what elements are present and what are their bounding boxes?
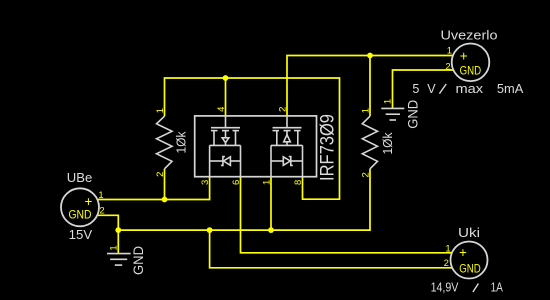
svg-text:+: + [460,48,468,63]
wire net E stub to R2 pin1 [369,56,371,117]
wire net C: IC pin6 to Uki pin1 [241,177,453,253]
junction node B2 [207,227,213,233]
svg-text:1A: 1A [491,281,504,295]
svg-text:1: 1 [98,190,103,201]
wire net E: IC pin2 to Uvezerlo pin1 [287,56,453,116]
junction node D [223,75,229,81]
svg-text:15V: 15V [69,228,93,242]
svg-text:1Øk: 1Øk [174,131,189,153]
svg-text:4: 4 [216,107,227,112]
wire net B stub down to GND1 [117,230,119,253]
wire net B branch to Uki pin2 [210,230,452,268]
value label 5V / max 5mA [412,82,524,96]
transistor Q1: left N-channel MOSFET of U1 [210,116,241,177]
svg-text:Uki: Uki [458,226,480,240]
svg-text:3: 3 [200,180,211,185]
svg-text:max: max [456,82,484,96]
svg-text:GND: GND [406,100,421,129]
svg-text:V: V [427,82,436,96]
wire net B branch to IC pin1 [270,177,272,230]
svg-text:14,9V: 14,9V [431,281,459,295]
ground GND2 symbol [381,108,404,120]
svg-text:1: 1 [445,243,450,254]
svg-text:+: + [459,245,467,260]
svg-text:1: 1 [383,99,394,104]
connector X3 Uki circle [451,242,488,279]
transistor Q2: right P-channel MOSFET of U1 [271,116,303,177]
svg-text:5: 5 [412,82,419,96]
svg-text:1Øk: 1Øk [380,132,395,154]
svg-text:Uvezerlo: Uvezerlo [441,29,498,43]
value label 14,9V / 1A [431,281,504,295]
svg-text:2: 2 [155,172,166,177]
wire net D stub to IC pin4 [225,78,227,116]
resistor R1 [157,116,173,169]
svg-text:2: 2 [277,107,288,112]
svg-text:2: 2 [360,172,371,177]
svg-text:1: 1 [360,108,371,113]
svg-text:2: 2 [444,258,449,269]
svg-text:2: 2 [99,206,104,217]
svg-text:GND: GND [460,65,482,77]
svg-text:1: 1 [108,245,119,250]
svg-text:+: + [84,194,92,209]
junction node E [367,53,373,59]
resistor R2 [362,116,377,169]
wire net A stub to R1 pin2 [164,169,166,200]
wire net A: UBe pin1 to IC pin3 [98,177,210,200]
junction node B3 [268,227,274,233]
svg-text:1: 1 [447,46,452,57]
ground GND1 symbol [107,254,131,266]
op-amp: IC U1 IRF7309 box outline [195,116,317,177]
wire net B: UBe pin2 along bottom bus to R2 pin2 [98,169,370,230]
svg-text:GND: GND [459,264,481,276]
svg-text:GND: GND [69,209,92,221]
svg-text:UBe: UBe [67,171,93,185]
wire net D: R1 pin1 across top to IC pin8 [165,78,340,199]
connector X1 UBe circle [61,188,99,226]
svg-text:1: 1 [155,108,166,113]
connector X2 Uvezerlo circle [452,44,490,82]
svg-text:8: 8 [293,180,304,185]
svg-text:5mA: 5mA [497,82,524,96]
wire net F: Uvezerlo pin2 to GND2 [393,70,454,108]
junction node A at R1 pin2 [162,197,168,203]
svg-text:2: 2 [445,61,450,72]
svg-text:1: 1 [261,180,272,185]
svg-text:GND: GND [131,246,146,275]
svg-text:6: 6 [231,180,242,185]
svg-text:IRF73Ø9: IRF73Ø9 [317,114,339,181]
junction node B1 [115,227,121,233]
